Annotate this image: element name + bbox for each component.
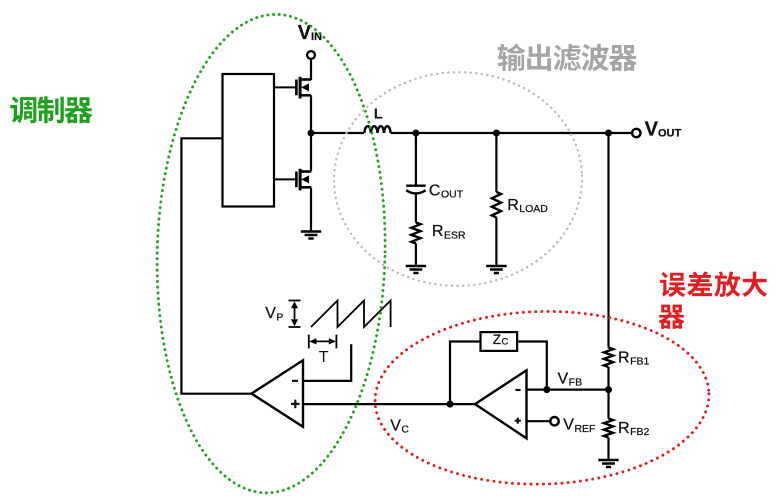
wire Z_C to minus input node xyxy=(517,342,547,390)
wire sawtooth stub to comparator minus input xyxy=(303,344,351,381)
driver block xyxy=(223,74,275,207)
V_P amplitude arrow xyxy=(289,301,301,328)
inductor L xyxy=(364,126,390,133)
node V_C node xyxy=(447,401,454,408)
wire switch node to inductor xyxy=(309,132,364,134)
wire plus input to V_REF terminal xyxy=(527,420,551,422)
label 调制器 (modulator) xyxy=(10,96,92,123)
svg-text:T: T xyxy=(319,349,329,366)
wire minus input to V_FB node xyxy=(527,389,609,391)
error amplifier region ellipse (red dotted) xyxy=(373,307,711,488)
wire R_LOAD branch top xyxy=(495,133,497,192)
wire low-side source to ground xyxy=(310,187,312,231)
wire C_OUT branch top xyxy=(415,133,417,186)
sawtooth ramp waveform xyxy=(311,301,391,328)
wire R_ESR to ground xyxy=(415,244,417,267)
wire V_IN stem xyxy=(310,59,312,80)
wire R_FB2 to ground xyxy=(607,438,609,461)
label 输出滤波器 (output filter) xyxy=(498,44,637,72)
node R_LOAD tap xyxy=(493,130,500,137)
node V_FB node xyxy=(605,386,612,393)
ground (R_ESR) xyxy=(406,266,426,273)
resistor R_LOAD xyxy=(492,192,501,218)
wire right rail V_OUT down to R_FB1 xyxy=(607,133,609,348)
wire switch-node rail between FETs xyxy=(310,95,312,171)
svg-text:L: L xyxy=(374,106,383,123)
Q1 gate wire xyxy=(274,86,296,88)
wire C_OUT to R_ESR xyxy=(415,195,417,223)
wire R_LOAD to ground xyxy=(495,218,497,267)
resistor R_FB2 xyxy=(604,419,613,438)
resistor R_ESR xyxy=(411,223,420,244)
Q2 gate wire xyxy=(274,178,296,180)
label 误差放大器 (error amplifier) line 1 xyxy=(660,271,767,297)
node Z_C output node xyxy=(543,386,550,393)
modulator region ellipse (green dotted) xyxy=(151,12,390,496)
T period arrow xyxy=(309,335,337,349)
Q1 body xyxy=(296,77,311,99)
ground (low-side FET) xyxy=(301,232,321,239)
impedance Z_C box xyxy=(481,332,518,351)
terminal V_IN xyxy=(307,51,315,59)
ground (R_FB2) xyxy=(598,460,618,467)
terminal V_REF xyxy=(550,417,558,425)
wire driver block to feedback (left) xyxy=(181,138,252,393)
Q2 body xyxy=(296,169,311,191)
wire error amp feedback up to Z_C xyxy=(450,342,481,405)
op-amp U1 PWM comparator xyxy=(252,360,304,427)
op-amp U2 error amplifier xyxy=(475,370,527,438)
ground (R_LOAD) xyxy=(486,266,506,273)
wire inductor to V_OUT terminal xyxy=(391,132,633,134)
wire V_C: comparator plus input to error-amp output xyxy=(303,403,476,405)
terminal V_OUT xyxy=(632,129,640,137)
capacitor C_OUT xyxy=(406,184,425,186)
wire R_FB1 to V_FB node xyxy=(607,367,609,419)
label 误差放大器 line 2 xyxy=(659,305,685,329)
node V_OUT rail xyxy=(605,130,612,137)
node C_OUT tap xyxy=(412,130,419,137)
output filter region ellipse (gray dotted) xyxy=(331,69,585,289)
resistor R_FB1 xyxy=(604,348,613,368)
node switch node xyxy=(308,130,315,137)
